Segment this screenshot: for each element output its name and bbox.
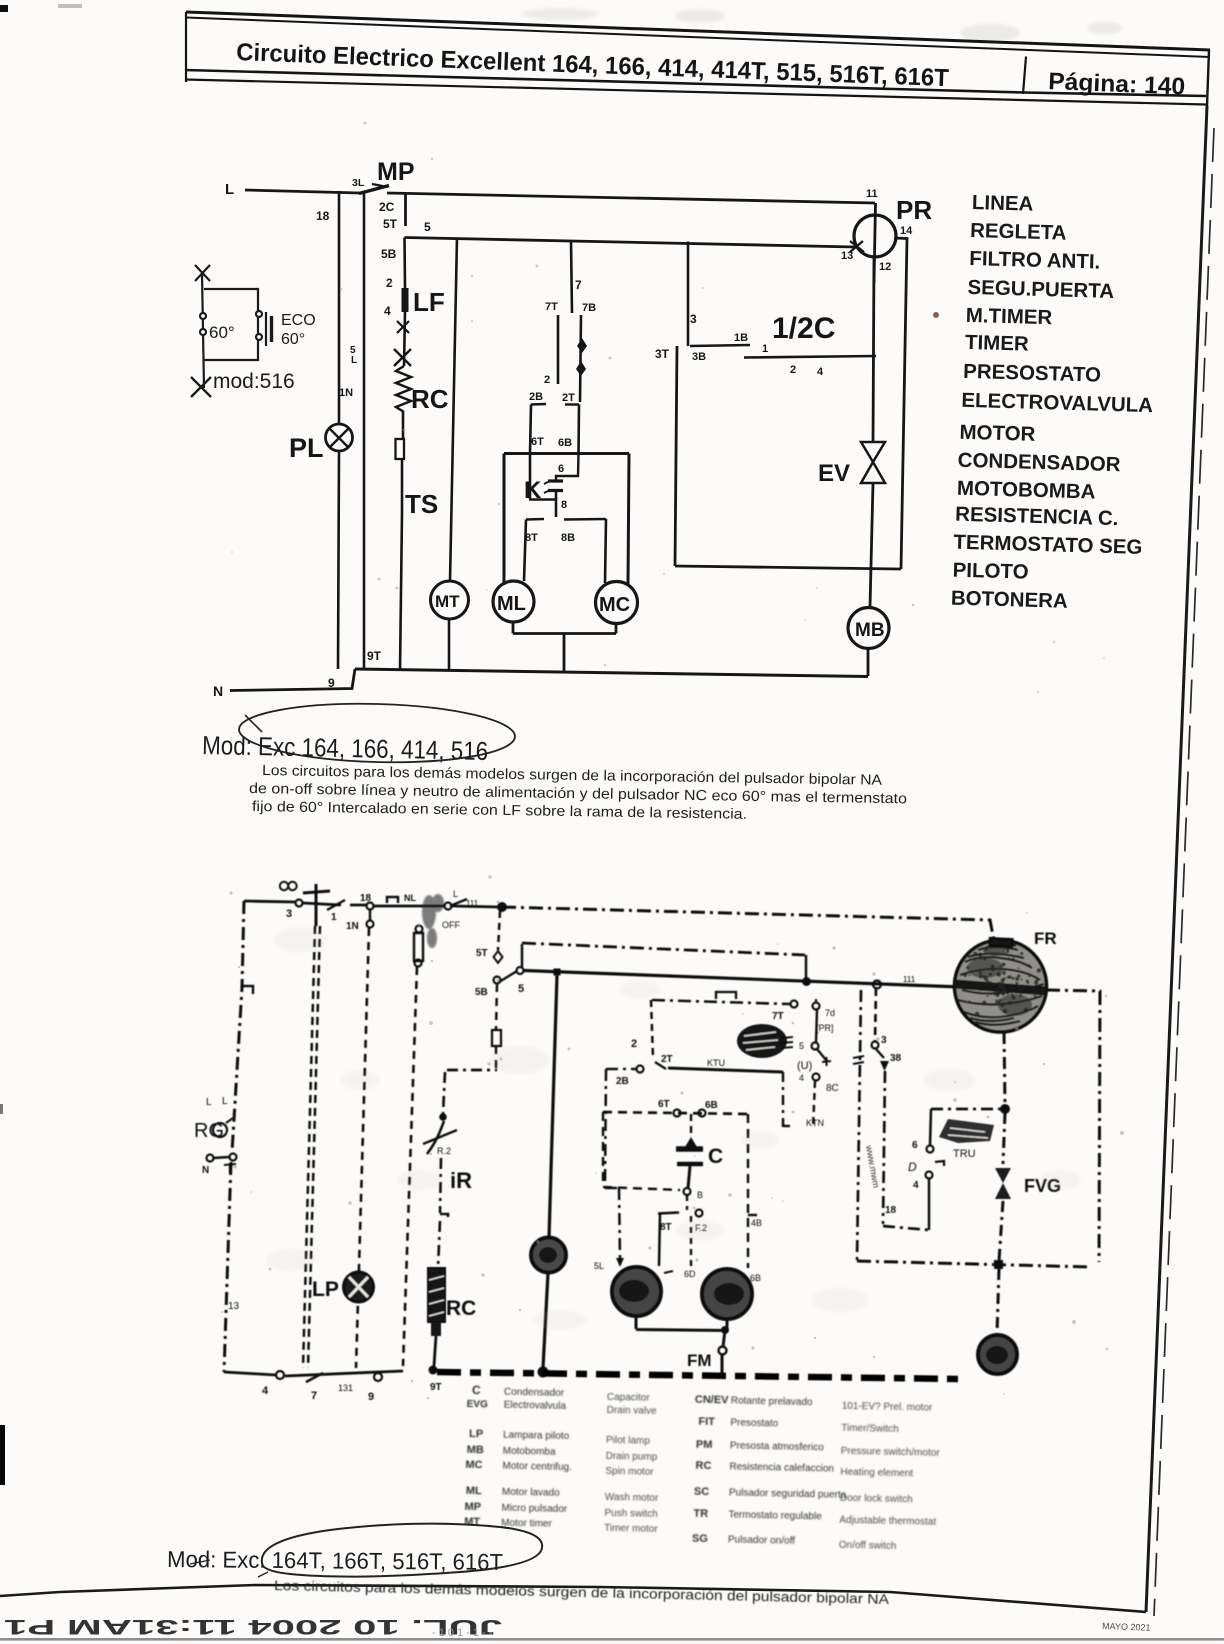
relay K arrows <box>544 482 549 494</box>
valve EVG <box>995 1168 1011 1183</box>
contact circle 9 <box>374 1373 382 1381</box>
svg-text:iR: iR <box>450 1168 472 1193</box>
page frame: bottom border <box>0 1585 1146 1612</box>
wire 2 branch dashed <box>651 1000 653 1058</box>
wire to FR top dash-dot <box>502 907 994 941</box>
fuse on 5B branch <box>492 1030 501 1046</box>
filter scribble blob <box>422 894 444 948</box>
svg-text:60°: 60° <box>281 331 305 348</box>
page frame: banner bottom rule 1 <box>185 70 1206 96</box>
svg-text:Timer motor: Timer motor <box>604 1523 658 1535</box>
svg-text:7B: 7B <box>582 302 596 314</box>
svg-text:TRU: TRU <box>953 1148 976 1160</box>
svg-text:MT: MT <box>435 592 460 611</box>
svg-text:SEGU.PUERTA: SEGU.PUERTA <box>967 276 1114 303</box>
resistor RC hatch <box>429 1276 444 1316</box>
wire FR right <box>1046 990 1100 1262</box>
svg-text:[PR]: [PR] <box>816 1023 834 1033</box>
wire 7T <box>557 315 560 384</box>
junction 13 x-mark <box>850 241 864 252</box>
svg-text:Presostato: Presostato <box>730 1417 778 1429</box>
motor FR top terminal <box>990 938 1012 946</box>
svg-text:MOTOR: MOTOR <box>959 421 1036 446</box>
wire EV to MB <box>870 483 873 607</box>
svg-text:2: 2 <box>631 1038 637 1050</box>
svg-text:3B: 3B <box>692 351 706 363</box>
wire 8B drop <box>690 1216 692 1268</box>
svg-text:REGLETA: REGLETA <box>970 219 1067 245</box>
svg-text:Wash motor: Wash motor <box>605 1492 659 1504</box>
svg-text:L: L <box>225 181 234 198</box>
svg-text:L: L <box>351 355 357 366</box>
svg-text:Door lock switch: Door lock switch <box>840 1493 913 1506</box>
svg-text:BOTONERA: BOTONERA <box>951 587 1069 613</box>
svg-text:7: 7 <box>311 1390 317 1402</box>
wire bottom bus 9T <box>355 669 868 677</box>
contact 2B tick <box>531 403 546 406</box>
svg-text:MP: MP <box>377 158 415 186</box>
scan noise specks <box>221 122 1124 1400</box>
svg-text:- 1 0 1 - 1 - -: - 1 0 1 - 1 - - <box>432 1627 493 1639</box>
contact 8T tick <box>526 518 544 521</box>
switch iR blade <box>427 1121 444 1154</box>
svg-text:Rotante prelavado: Rotante prelavado <box>731 1395 813 1408</box>
wire MP branch down <box>363 193 366 670</box>
wire 7B <box>580 315 581 402</box>
fuse TS <box>396 439 405 459</box>
svg-text:1B: 1B <box>734 332 748 344</box>
svg-text:LINEA: LINEA <box>972 191 1034 216</box>
svg-text:11: 11 <box>866 188 878 200</box>
wire 2 row left <box>606 1068 637 1071</box>
contact circles right <box>256 311 262 317</box>
wire L to MP <box>245 190 360 193</box>
svg-text:B: B <box>697 1190 703 1200</box>
motor MC <box>702 1269 752 1319</box>
branch 1N <box>369 909 371 920</box>
wire mid solid line to FR <box>524 971 961 988</box>
plug contact N <box>207 1155 214 1162</box>
wire EVG to junction <box>999 1201 1003 1261</box>
motor MC <box>596 582 638 624</box>
svg-text:1N: 1N <box>346 921 359 932</box>
svg-text:Adjustable thermostat: Adjustable thermostat <box>839 1515 936 1528</box>
wire x860 rail <box>857 990 861 1261</box>
svg-text:C: C <box>708 1145 723 1168</box>
motor ML <box>493 581 534 622</box>
wire MT to bus <box>543 1273 548 1368</box>
svg-text:3: 3 <box>690 312 697 326</box>
wire 2 row solid right <box>668 1068 783 1072</box>
svg-text:2B: 2B <box>529 391 543 403</box>
svg-text:RC: RC <box>411 384 449 414</box>
svg-text:111: 111 <box>903 975 916 984</box>
switch MP blade <box>359 186 389 194</box>
wire thermostat left <box>202 273 204 388</box>
wire 2B down <box>530 405 531 454</box>
contact circle 18 <box>367 903 374 910</box>
capacitor C plates <box>676 1146 703 1152</box>
node FM <box>723 1330 725 1347</box>
contacts U column <box>815 999 817 1003</box>
svg-text:6: 6 <box>912 1140 918 1151</box>
wire EV feed <box>873 257 874 442</box>
wire fuse down dashed <box>403 967 417 1366</box>
fuse component <box>416 926 423 933</box>
wire 18 drop <box>883 1071 929 1230</box>
svg-text:K: K <box>524 477 542 504</box>
contact 5T 5B <box>498 911 500 950</box>
wire bus 5 <box>405 238 856 248</box>
wire 3 right branch <box>875 988 876 1041</box>
contact 2T tick <box>565 403 579 405</box>
wire 1000 dash-dot <box>652 1000 790 1004</box>
svg-text:3: 3 <box>881 1035 887 1046</box>
svg-text:On/off switch: On/off switch <box>839 1540 897 1552</box>
svg-text:7T: 7T <box>772 1011 784 1022</box>
wire box bottom <box>675 566 901 569</box>
contact 8T 8B ticks <box>658 1213 679 1214</box>
svg-text:L: L <box>222 1096 228 1107</box>
wire iR to RC <box>438 1158 448 1268</box>
svg-text:KTN: KTN <box>806 1118 824 1128</box>
svg-text:TIMER: TIMER <box>965 331 1030 356</box>
svg-text:5B: 5B <box>381 247 397 261</box>
svg-text:PR: PR <box>896 195 932 225</box>
switch blade 1 <box>327 900 345 910</box>
wire TR contacts up <box>928 1179 931 1230</box>
wire ML MC join <box>513 622 616 672</box>
svg-text:SC: SC <box>694 1486 710 1498</box>
wire LF to RC <box>404 312 405 366</box>
heavy dashed bottom bus <box>437 1372 958 1379</box>
svg-text:PILOTO: PILOTO <box>952 559 1029 584</box>
svg-text:(U): (U) <box>797 1060 812 1072</box>
svg-text:TR: TR <box>693 1508 708 1520</box>
wire EVG junction to MB <box>997 1269 999 1334</box>
svg-text:5T: 5T <box>383 217 398 231</box>
scan smudges above header <box>522 8 1123 42</box>
pagina box divider <box>1023 57 1026 95</box>
motor pump MB <box>848 608 889 649</box>
svg-text:6: 6 <box>558 463 564 475</box>
wire box right to MC <box>628 454 629 585</box>
wire 1B-3B <box>690 345 750 346</box>
svg-text:MC: MC <box>465 1459 482 1471</box>
svg-text:Micro pulsador: Micro pulsador <box>501 1503 567 1515</box>
wire LP rail dashed <box>356 928 369 1368</box>
relay K plates <box>548 481 563 491</box>
motor MT <box>531 1238 566 1273</box>
capacitor C feed <box>690 1114 693 1137</box>
svg-text:7d: 7d <box>825 1008 835 1018</box>
wire PR vertical through circle <box>874 203 876 283</box>
wire ML MC join bottom <box>636 1316 727 1331</box>
lamp LP <box>344 1272 374 1302</box>
svg-text:13: 13 <box>228 1301 240 1312</box>
svg-text:N: N <box>202 1165 209 1176</box>
motor timer MT <box>431 581 469 619</box>
svg-text:FIT: FIT <box>698 1416 715 1428</box>
svg-text:Pulsador on/off: Pulsador on/off <box>728 1534 796 1546</box>
svg-text:LP: LP <box>469 1428 483 1440</box>
svg-text:RC: RC <box>446 1297 476 1320</box>
svg-text:MB: MB <box>855 620 885 641</box>
svg-text:111: 111 <box>466 899 479 908</box>
svg-text:Condensador: Condensador <box>504 1387 565 1399</box>
wire 8B to MC <box>605 519 606 583</box>
page frame: banner bottom rule 2 <box>185 80 1206 105</box>
left rail dash-dot <box>232 901 244 1152</box>
svg-text:MT: MT <box>464 1516 480 1528</box>
svg-text:Mod: Exc. 164T, 166T, 516T, 61: Mod: Exc. 164T, 166T, 516T, 616T <box>167 1546 503 1575</box>
wire RC to TS <box>402 412 405 439</box>
stub 2C-5T <box>404 194 407 226</box>
wire box left to ML <box>503 454 506 586</box>
stub 3 <box>687 242 690 347</box>
contact blade OFF <box>445 903 452 910</box>
svg-text:FM: FM <box>687 1351 712 1370</box>
wire top bus <box>244 901 499 907</box>
relay K bus <box>504 452 629 455</box>
wire TS to bus <box>400 513 402 670</box>
svg-text:2T: 2T <box>661 1054 673 1065</box>
wire iR row <box>447 1069 497 1072</box>
wire bottom-left row <box>224 1371 403 1376</box>
scan artifact: black mark top-left edge <box>0 5 8 12</box>
contact 2T <box>655 1062 666 1069</box>
svg-text:NL: NL <box>404 893 416 903</box>
svg-text:5T: 5T <box>476 948 488 959</box>
svg-text:3T: 3T <box>655 347 670 361</box>
hand ellipse around models 2 <box>262 1524 542 1577</box>
svg-text:7: 7 <box>575 278 582 292</box>
wire 3T vertical <box>675 346 677 566</box>
motor pump MB <box>978 1335 1017 1374</box>
contact circle 4 <box>276 1371 284 1379</box>
svg-text:Spin motor: Spin motor <box>605 1466 654 1478</box>
wire bus5 to MT <box>450 238 457 582</box>
motor FR speckle texture <box>963 948 1041 1016</box>
junction dot top bus <box>497 902 507 912</box>
svg-text:8C: 8C <box>826 1083 839 1094</box>
svg-text:KTU: KTU <box>707 1058 725 1068</box>
wire bottom dash-dot row <box>857 1261 1090 1267</box>
svg-text:4B: 4B <box>751 1218 762 1228</box>
svg-text:N: N <box>213 683 223 699</box>
svg-text:5: 5 <box>799 1041 804 1051</box>
thermostat TRU blob <box>939 1119 994 1143</box>
svg-text:LP: LP <box>312 1278 339 1301</box>
x-mark big <box>394 349 411 366</box>
wire 18 <box>338 191 341 424</box>
scan dot <box>933 312 939 318</box>
svg-text:FR: FR <box>1034 929 1057 948</box>
wire corner 943 dash-dot <box>521 944 524 967</box>
wire N <box>230 669 355 691</box>
thermal fuse LF <box>402 288 409 312</box>
svg-text:5: 5 <box>424 220 431 234</box>
svg-text:Motor centrifug.: Motor centrifug. <box>502 1461 572 1473</box>
svg-text:MAYO 2021: MAYO 2021 <box>1102 1621 1151 1633</box>
wire 5B to LF <box>403 238 406 289</box>
svg-text:2: 2 <box>544 374 550 386</box>
svg-text:RC: RC <box>695 1460 711 1472</box>
svg-text:2B: 2B <box>616 1076 629 1087</box>
svg-text:Drain valve: Drain valve <box>606 1405 657 1417</box>
svg-text:8T: 8T <box>525 532 538 544</box>
wire PR 14 exit <box>894 238 907 569</box>
svg-text:3L: 3L <box>352 177 365 189</box>
svg-text:8: 8 <box>561 499 567 511</box>
svg-text:60°: 60° <box>209 323 235 342</box>
motor FR equator band <box>955 984 1046 991</box>
wire 8 <box>555 492 558 517</box>
wire 5B branch down <box>496 984 497 1030</box>
svg-text:4: 4 <box>799 1073 804 1083</box>
thermostat TRU box top <box>931 1108 1001 1111</box>
svg-text:MB: MB <box>467 1444 484 1456</box>
svg-text:5: 5 <box>518 983 524 995</box>
x-mark top <box>195 265 210 281</box>
svg-text:3: 3 <box>286 908 292 920</box>
svg-text:M.TIMER: M.TIMER <box>965 304 1052 329</box>
svg-text:EVG: EVG <box>467 1399 489 1410</box>
contact 8B tick <box>564 518 606 521</box>
svg-text:LF: LF <box>413 287 445 317</box>
svg-text:8T: 8T <box>660 1222 672 1233</box>
gate symbol on bus <box>387 897 398 903</box>
motor U blob <box>737 1024 787 1058</box>
svg-text:4: 4 <box>817 366 824 378</box>
page frame: banner top rule 1 <box>186 12 1210 50</box>
photocopy mottling <box>266 928 1080 1330</box>
capacitor C lower wire <box>688 1166 690 1188</box>
pressure switch PR <box>854 215 896 257</box>
junction square EVG <box>994 1260 1003 1269</box>
svg-text:Capacitor: Capacitor <box>607 1392 651 1404</box>
contact circles left <box>200 313 206 319</box>
svg-text:CONDENSADOR: CONDENSADOR <box>957 449 1121 477</box>
svg-text:ML: ML <box>466 1485 482 1497</box>
wire 1/2C contact line <box>744 356 876 358</box>
svg-text:Pilot lamp: Pilot lamp <box>606 1435 651 1447</box>
page frame: right border outer line <box>1154 128 1214 1616</box>
gate mark <box>716 992 736 999</box>
svg-text:5L: 5L <box>594 1261 604 1271</box>
svg-text:Termostato regulable: Termostato regulable <box>728 1509 822 1522</box>
svg-text:2T: 2T <box>562 392 575 404</box>
x-mark bottom <box>191 377 211 397</box>
svg-text:Push switch: Push switch <box>604 1508 658 1520</box>
wire EVG rail <box>1003 1113 1005 1164</box>
svg-text:RESISTENCIA C.: RESISTENCIA C. <box>955 503 1119 531</box>
motor ML <box>612 1267 661 1316</box>
svg-text:L: L <box>453 889 458 899</box>
svg-text:Electrovalvula: Electrovalvula <box>504 1400 567 1412</box>
svg-text:18: 18 <box>885 1205 897 1216</box>
svg-text:7T: 7T <box>545 301 558 313</box>
hand ellipse around models <box>238 700 515 765</box>
arrow contacts on 7B <box>577 338 587 353</box>
switch ECO bars <box>265 312 267 346</box>
svg-text:MOTOBOMBA: MOTOBOMBA <box>957 477 1096 504</box>
wire 8T to ML <box>524 520 526 582</box>
svg-text:131: 131 <box>338 1383 353 1393</box>
svg-text:mod:516: mod:516 <box>213 370 295 393</box>
svg-text:D: D <box>908 1160 917 1174</box>
switch blade 5 <box>499 971 517 982</box>
svg-text:18: 18 <box>316 209 330 223</box>
svg-text:6T: 6T <box>531 436 544 448</box>
thermostat 60 box <box>204 289 258 360</box>
wire 6 row right drop <box>748 1114 757 1268</box>
svg-text:4: 4 <box>913 1180 919 1191</box>
scan artifact: black bar left edge lower <box>0 1425 5 1485</box>
svg-text:MC: MC <box>599 594 630 616</box>
wire 2B drop to ML <box>605 1069 620 1258</box>
svg-text:Página: 140: Página: 140 <box>1048 68 1186 100</box>
antenna T mark <box>303 884 330 926</box>
wire 8T drop <box>659 1214 660 1267</box>
svg-text:ECO: ECO <box>281 312 316 329</box>
svg-text:JUL. 10 2004 11:31AM P1: JUL. 10 2004 11:31AM P1 <box>4 1615 502 1639</box>
svg-text:4: 4 <box>262 1385 269 1397</box>
wire MP to PR <box>387 193 875 203</box>
svg-text:Timer/Switch: Timer/Switch <box>841 1423 899 1435</box>
svg-text:SG: SG <box>692 1533 708 1545</box>
motor FR body <box>955 940 1047 1032</box>
ladder double-dash rail <box>303 926 315 1368</box>
junction dot iR <box>439 1113 447 1121</box>
svg-text:Pressure switch/motor: Pressure switch/motor <box>841 1446 941 1459</box>
contact circle 3 <box>296 900 303 907</box>
svg-text:Drain pump: Drain pump <box>606 1451 658 1463</box>
junction node mid line <box>802 977 811 986</box>
page frame: banner top rule 2 <box>186 18 1210 58</box>
svg-text:6B: 6B <box>558 437 572 449</box>
svg-text:R.2: R.2 <box>437 1146 451 1156</box>
svg-text:12: 12 <box>879 261 891 273</box>
contact circle 3-drop <box>873 981 881 989</box>
relay K coil left <box>529 454 556 500</box>
dashed box left edge <box>603 1112 680 1190</box>
svg-text:2C: 2C <box>379 200 395 214</box>
wire 7 <box>571 241 572 313</box>
svg-text:6D: 6D <box>684 1269 696 1279</box>
wire MT to bus <box>448 619 451 671</box>
infinity contact symbol <box>280 882 288 890</box>
resistor RC zigzag <box>396 366 411 412</box>
svg-text:Motor lavado: Motor lavado <box>502 1487 560 1499</box>
svg-text:1/2C: 1/2C <box>772 312 835 345</box>
svg-text:6T: 6T <box>658 1099 670 1110</box>
wire PL to bus <box>338 451 339 669</box>
svg-text:OFF: OFF <box>442 920 460 930</box>
svg-text:Lampara piloto: Lampara piloto <box>503 1430 570 1442</box>
switch blade bottom row <box>306 1373 323 1382</box>
svg-text:C: C <box>472 1383 481 1397</box>
svg-text:1: 1 <box>331 912 337 923</box>
svg-text:6B: 6B <box>750 1273 761 1283</box>
svg-text:1N: 1N <box>339 387 353 399</box>
wire KTU drop <box>783 1072 790 1127</box>
wire TS down <box>401 459 404 513</box>
page frame: banner left edge <box>185 12 187 82</box>
svg-text:MP: MP <box>464 1501 481 1513</box>
svg-text:Resistencia calefaccion: Resistencia calefaccion <box>729 1461 834 1474</box>
svg-text:PL: PL <box>289 433 324 463</box>
